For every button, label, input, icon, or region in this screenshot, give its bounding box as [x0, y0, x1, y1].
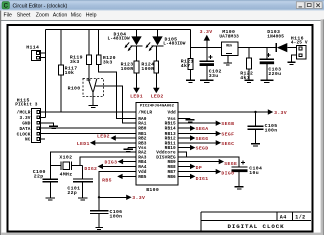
wire: Vdd to 3.3V arrow bottom	[99, 172, 131, 198]
wire: top 3.3V rail	[46, 29, 191, 31]
capacitor C104	[232, 161, 263, 187]
svg-text:DIG0: DIG0	[221, 171, 234, 177]
connector H116	[291, 35, 308, 62]
svg-text:X102: X102	[59, 155, 72, 161]
svg-text:LED1: LED1	[77, 141, 90, 147]
ground for R100	[88, 106, 97, 108]
IC U B100 PIC24FJ64GA002	[136, 102, 178, 193]
svg-text:LED2: LED2	[97, 133, 110, 139]
ground for C104	[234, 187, 243, 189]
svg-text:4-25 V: 4-25 V	[291, 41, 308, 46]
svg-text:22p: 22p	[67, 190, 77, 196]
svg-text:L-483IDW: L-483IDW	[108, 37, 130, 42]
wire: DATA net	[41, 127, 131, 129]
resistor R122	[240, 48, 253, 82]
svg-text:3.3V: 3.3V	[200, 29, 213, 35]
capacitor C100	[33, 166, 58, 198]
crystal X102	[50, 155, 82, 178]
connector H115 PICkit 3	[15, 97, 40, 142]
diode D103	[267, 29, 296, 52]
svg-text:Vdd: Vdd	[167, 111, 176, 116]
svg-text:RB14: RB14	[165, 127, 176, 132]
ground for C105	[251, 144, 260, 146]
title block	[201, 212, 311, 230]
svg-text:File: File	[4, 13, 12, 19]
ground for C102	[200, 80, 213, 82]
svg-text:DIG3: DIG3	[104, 159, 117, 165]
svg-text:DATA: DATA	[19, 127, 30, 132]
ground for M100	[224, 63, 232, 65]
svg-text:SEGC: SEGC	[221, 141, 234, 147]
close button	[314, 2, 322, 9]
wire: RA2 to crystal	[50, 152, 130, 166]
svg-text:Help: Help	[86, 13, 97, 19]
IC left pin stubs	[131, 112, 136, 176]
capacitor C105	[248, 112, 278, 144]
menu bar	[0, 11, 324, 21]
svg-text:1N4005: 1N4005	[267, 35, 284, 40]
resistor R117	[59, 30, 78, 113]
svg-text:UA78M33: UA78M33	[219, 35, 239, 40]
svg-text:4MHz: 4MHz	[60, 171, 73, 177]
capacitor C103	[260, 48, 282, 81]
ground for H115	[49, 126, 58, 128]
minimize button	[296, 2, 304, 9]
svg-text:C: C	[4, 4, 9, 10]
3.3V arrow at regulator output	[200, 29, 213, 48]
svg-text:100R: 100R	[121, 66, 134, 72]
ground at IC right Vss	[184, 118, 195, 122]
svg-text:33u: 33u	[209, 73, 219, 79]
ground for C103	[261, 80, 274, 82]
ground at IC left Vss	[124, 148, 133, 152]
arrow 3.3V right	[268, 109, 287, 116]
arrow DIG1 at RB6	[184, 174, 209, 182]
arrow 3.3V bottom	[126, 195, 145, 202]
svg-text:LED1: LED1	[130, 94, 143, 100]
arrow LED2 net	[151, 88, 164, 100]
svg-text:22p: 22p	[34, 173, 44, 179]
wire: switch tap to RA1	[95, 86, 130, 123]
LED D105	[145, 30, 185, 52]
svg-text:NC: NC	[25, 138, 31, 143]
wire: DISVREG to C104	[184, 157, 240, 167]
resistor R121	[181, 48, 194, 81]
arrow DP at RB8	[184, 164, 203, 171]
svg-text:/MCLR: /MCLR	[17, 111, 31, 116]
svg-text:PICkit 3: PICkit 3	[15, 102, 37, 107]
svg-text:LED2: LED2	[151, 94, 164, 100]
svg-text:100n: 100n	[265, 128, 278, 134]
svg-text:Action: Action	[53, 13, 68, 19]
svg-text:100n: 100n	[110, 213, 123, 219]
svg-text:PIC24FJ64GA002: PIC24FJ64GA002	[140, 105, 175, 109]
wire: IC Vdd right to 3.3V	[184, 111, 269, 113]
svg-text:L-483IDW: L-483IDW	[163, 42, 185, 47]
svg-text:Zoom: Zoom	[36, 13, 49, 19]
wire: /MCLR net	[41, 111, 131, 113]
svg-text:CLOCK: CLOCK	[17, 132, 31, 137]
wire: rail drop to regulator rail	[190, 30, 192, 48]
arrow DIG3 at RB4	[104, 159, 130, 165]
wire: H115 3.3V pin	[41, 116, 46, 118]
svg-text:Misc: Misc	[71, 13, 82, 19]
LED D104	[108, 30, 143, 52]
svg-text:B100: B100	[146, 187, 159, 193]
svg-text:DIG2: DIG2	[84, 166, 97, 172]
ground for C106	[95, 227, 103, 229]
maximize button	[305, 2, 313, 9]
wire: H115 NC stub	[41, 138, 46, 140]
svg-text:10u: 10u	[249, 170, 259, 176]
wire: H115 GND pin	[41, 123, 54, 126]
IC pin labels right	[156, 111, 176, 180]
app icon	[2, 2, 10, 10]
ground for R122	[245, 80, 254, 82]
junction C106 tap	[98, 196, 100, 198]
svg-text:RB0: RB0	[138, 127, 147, 132]
svg-text:SEGG: SEGG	[196, 136, 209, 142]
wire: RA3 to crystal	[80, 157, 131, 166]
svg-text:DIGITAL CLOCK: DIGITAL CLOCK	[228, 223, 285, 230]
arrow SEGC at RB11	[184, 140, 235, 147]
arrow SEGG at RB12	[184, 135, 209, 142]
arrow SEGF at RB13	[184, 131, 235, 138]
svg-text:R100: R100	[68, 86, 81, 92]
svg-text:3.3V: 3.3V	[274, 110, 287, 116]
svg-text:REG: REG	[226, 44, 232, 48]
svg-text:SEGF: SEGF	[221, 132, 234, 138]
svg-text:H114: H114	[26, 44, 39, 50]
connector H114	[26, 44, 45, 60]
switch R100	[68, 78, 104, 105]
resistor R124	[141, 46, 158, 88]
ground for R121	[186, 80, 195, 82]
svg-text:3.3V: 3.3V	[132, 195, 145, 201]
svg-text:/MCLR: /MCLR	[138, 111, 152, 116]
svg-text:A4: A4	[280, 214, 287, 220]
title bar	[0, 0, 324, 11]
svg-text:3k3: 3k3	[70, 59, 80, 65]
ground for C100	[46, 198, 56, 200]
arrow SEGB at RB15	[184, 121, 235, 128]
window edges	[0, 11, 1, 236]
junction C105 tap	[254, 111, 256, 113]
arrow DIG2 at RA4	[84, 164, 130, 172]
svg-text:100R: 100R	[141, 66, 154, 72]
wire: R120 to RA0	[99, 65, 131, 119]
resistor R123	[121, 46, 139, 88]
svg-text:DP: DP	[196, 165, 202, 171]
arrow SEGE at RB9	[184, 159, 238, 167]
svg-text:Circuit Editor - (clockck): Circuit Editor - (clockck)	[13, 4, 68, 10]
svg-text:220u: 220u	[268, 71, 281, 77]
arrow LED1 net	[130, 88, 143, 100]
IC right pin stubs	[178, 112, 184, 176]
arrow LED2 at RB2	[97, 133, 131, 140]
svg-text:SEGA: SEGA	[196, 126, 209, 132]
svg-text:RB5: RB5	[138, 175, 147, 180]
wire: Vddcore step	[184, 152, 187, 157]
wire: regulator output rail	[191, 47, 222, 49]
resistor R119	[70, 30, 91, 81]
regulator M100	[219, 29, 239, 63]
arrow SEGD at RB10	[184, 145, 209, 152]
arrow RB5 net	[102, 174, 130, 184]
resistor R120	[96, 30, 115, 66]
svg-text:3.3V: 3.3V	[19, 116, 30, 121]
svg-text:1/2: 1/2	[295, 214, 305, 220]
svg-text:SEGD: SEGD	[196, 146, 209, 152]
arrow SEGA at RB14	[184, 126, 209, 133]
capacitor C106	[90, 197, 122, 227]
arrow LED1 at RB3	[77, 140, 131, 147]
svg-text:3k3: 3k3	[103, 60, 113, 66]
svg-text:RB5: RB5	[102, 177, 112, 183]
wire: H114 vertical	[45, 30, 47, 118]
svg-text:GND: GND	[22, 122, 31, 127]
svg-text:DIG1: DIG1	[196, 176, 209, 182]
wire: CLOCK net	[41, 133, 131, 135]
capacitor C101	[67, 166, 92, 198]
svg-text:SEGB: SEGB	[221, 121, 234, 127]
capacitor C102	[200, 48, 222, 81]
ground for C101	[78, 198, 87, 200]
svg-text:SEGE: SEGE	[224, 161, 237, 167]
wire: regulator input rail	[238, 47, 276, 49]
svg-text:Sheet: Sheet	[17, 13, 31, 19]
svg-text:RB6: RB6	[167, 175, 176, 180]
svg-text:10k: 10k	[65, 70, 75, 76]
svg-text:4k7: 4k7	[181, 63, 191, 69]
arrow DIG0 at RB7	[184, 169, 235, 177]
IC pin labels left	[138, 111, 152, 180]
ground for H116	[287, 62, 295, 64]
